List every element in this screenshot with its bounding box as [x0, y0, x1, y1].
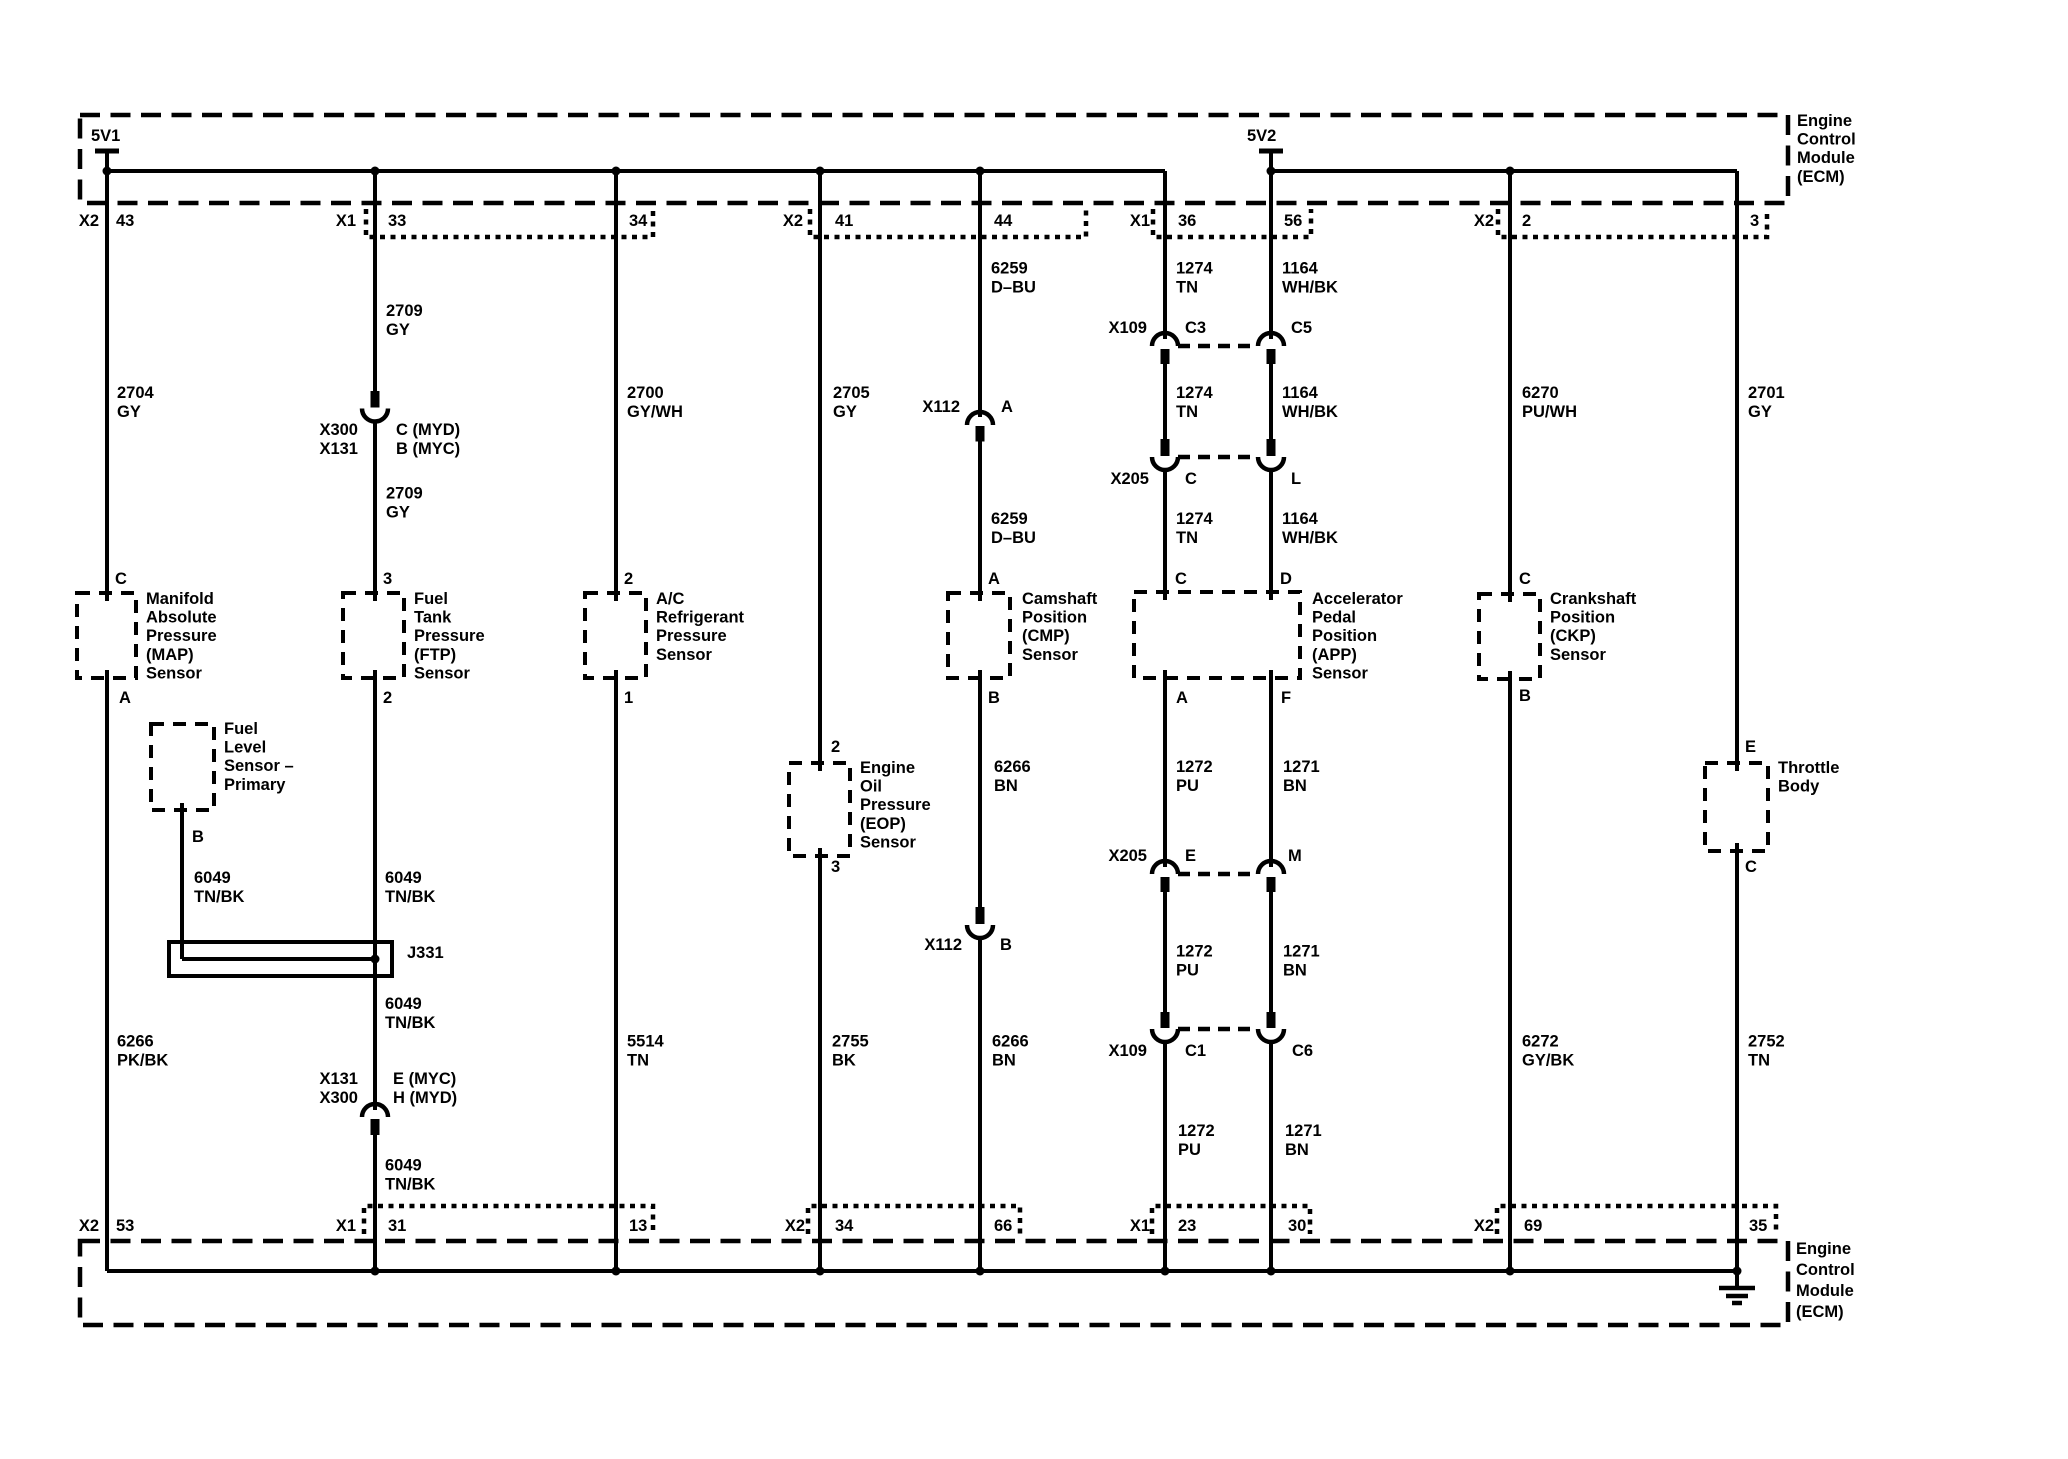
svg-text:(EOP): (EOP) [860, 815, 906, 833]
svg-text:2704: 2704 [117, 384, 155, 402]
svg-text:X109: X109 [1108, 319, 1147, 337]
svg-text:H (MYD): H (MYD) [393, 1089, 457, 1107]
svg-text:E: E [1185, 847, 1196, 865]
svg-text:C: C [1175, 570, 1187, 588]
svg-text:Refrigerant: Refrigerant [656, 609, 745, 627]
svg-text:X205: X205 [1110, 470, 1149, 488]
svg-text:6266: 6266 [992, 1033, 1029, 1051]
svg-text:X1: X1 [336, 1217, 356, 1235]
svg-text:1272: 1272 [1176, 758, 1213, 776]
svg-text:BN: BN [1283, 777, 1307, 795]
svg-text:PU: PU [1176, 962, 1199, 980]
svg-text:TN/BK: TN/BK [194, 888, 244, 906]
svg-text:Sensor: Sensor [1022, 646, 1079, 664]
svg-text:36: 36 [1178, 212, 1196, 230]
svg-text:Control: Control [1796, 1261, 1855, 1279]
svg-text:X1: X1 [1130, 1217, 1150, 1235]
svg-text:B: B [1000, 936, 1012, 954]
svg-text:GY: GY [386, 504, 410, 522]
svg-text:Level: Level [224, 739, 266, 757]
svg-text:D: D [1280, 570, 1292, 588]
svg-text:5V1: 5V1 [91, 127, 120, 145]
svg-text:Control: Control [1797, 131, 1856, 149]
svg-text:Sensor: Sensor [656, 646, 713, 664]
svg-text:F: F [1281, 689, 1291, 707]
svg-text:Accelerator: Accelerator [1312, 590, 1403, 608]
svg-text:TN/BK: TN/BK [385, 1014, 435, 1032]
svg-text:(FTP): (FTP) [414, 646, 456, 664]
svg-text:66: 66 [994, 1217, 1012, 1235]
svg-text:PU: PU [1176, 777, 1199, 795]
svg-text:43: 43 [116, 212, 134, 230]
svg-text:C3: C3 [1185, 319, 1206, 337]
svg-text:C: C [1519, 570, 1531, 588]
svg-text:Sensor: Sensor [860, 833, 917, 851]
svg-text:2700: 2700 [627, 384, 664, 402]
svg-text:41: 41 [835, 212, 853, 230]
svg-text:5514: 5514 [627, 1033, 665, 1051]
svg-text:Primary: Primary [224, 776, 286, 794]
svg-text:Manifold: Manifold [146, 590, 214, 608]
svg-text:(CMP): (CMP) [1022, 627, 1070, 645]
svg-text:Module: Module [1797, 149, 1855, 167]
svg-text:C: C [115, 570, 127, 588]
svg-text:X300: X300 [319, 1089, 358, 1107]
svg-text:X2: X2 [79, 1217, 99, 1235]
svg-text:GY: GY [386, 321, 410, 339]
svg-text:BN: BN [994, 777, 1018, 795]
svg-text:TN/BK: TN/BK [385, 888, 435, 906]
svg-text:44: 44 [994, 212, 1013, 230]
svg-text:(APP): (APP) [1312, 646, 1357, 664]
svg-text:6266: 6266 [994, 758, 1031, 776]
svg-text:2: 2 [831, 738, 840, 756]
svg-text:2709: 2709 [386, 485, 423, 503]
svg-text:X2: X2 [785, 1217, 805, 1235]
svg-text:C: C [1185, 470, 1197, 488]
svg-text:X1: X1 [1130, 212, 1150, 230]
svg-text:Engine: Engine [1797, 112, 1852, 130]
svg-text:Sensor: Sensor [1550, 646, 1607, 664]
svg-text:BN: BN [1283, 962, 1307, 980]
svg-text:BN: BN [992, 1052, 1016, 1070]
svg-text:M: M [1288, 847, 1302, 865]
svg-text:6049: 6049 [385, 1157, 422, 1175]
svg-text:GY: GY [833, 403, 857, 421]
svg-text:1271: 1271 [1285, 1122, 1322, 1140]
svg-text:2: 2 [383, 689, 392, 707]
svg-text:(CKP): (CKP) [1550, 627, 1596, 645]
svg-text:1271: 1271 [1283, 758, 1320, 776]
svg-text:(MAP): (MAP) [146, 646, 194, 664]
svg-text:C1: C1 [1185, 1042, 1206, 1060]
svg-text:56: 56 [1284, 212, 1302, 230]
svg-text:TN: TN [627, 1052, 649, 1070]
svg-text:2: 2 [1522, 212, 1531, 230]
svg-text:X109: X109 [1108, 1042, 1147, 1060]
svg-text:53: 53 [116, 1217, 134, 1235]
svg-text:A: A [1001, 398, 1013, 416]
svg-text:1164: 1164 [1282, 510, 1319, 528]
svg-text:2705: 2705 [833, 384, 870, 402]
svg-text:23: 23 [1178, 1217, 1196, 1235]
svg-text:A: A [988, 570, 1000, 588]
svg-text:(ECM): (ECM) [1797, 168, 1845, 186]
svg-text:Throttle: Throttle [1778, 759, 1839, 777]
svg-text:Fuel: Fuel [224, 720, 258, 738]
svg-text:B: B [192, 828, 204, 846]
svg-text:34: 34 [629, 212, 648, 230]
svg-text:Pressure: Pressure [146, 627, 217, 645]
svg-text:30: 30 [1288, 1217, 1306, 1235]
svg-text:3: 3 [831, 858, 840, 876]
svg-text:Position: Position [1312, 627, 1377, 645]
svg-text:1274: 1274 [1176, 510, 1214, 528]
svg-text:X2: X2 [1474, 1217, 1494, 1235]
svg-text:Pressure: Pressure [414, 627, 485, 645]
svg-text:X2: X2 [79, 212, 99, 230]
svg-text:X205: X205 [1108, 847, 1147, 865]
svg-text:5V2: 5V2 [1247, 127, 1276, 145]
svg-text:C5: C5 [1291, 319, 1312, 337]
svg-text:B: B [988, 689, 1000, 707]
svg-text:Absolute: Absolute [146, 609, 217, 627]
svg-text:GY/BK: GY/BK [1522, 1052, 1574, 1070]
svg-text:TN: TN [1176, 279, 1198, 297]
svg-text:A: A [119, 689, 131, 707]
svg-text:GY: GY [117, 403, 141, 421]
svg-text:3: 3 [1750, 212, 1759, 230]
svg-text:C: C [1745, 858, 1757, 876]
svg-text:Sensor: Sensor [146, 664, 203, 682]
svg-text:1274: 1274 [1176, 260, 1214, 278]
svg-text:B: B [1519, 687, 1531, 705]
svg-text:6049: 6049 [194, 869, 231, 887]
svg-text:Sensor: Sensor [1312, 664, 1369, 682]
svg-text:Sensor –: Sensor – [224, 757, 294, 775]
svg-text:Fuel: Fuel [414, 590, 448, 608]
svg-text:WH/BK: WH/BK [1282, 279, 1338, 297]
svg-text:1164: 1164 [1282, 384, 1319, 402]
svg-text:L: L [1291, 470, 1301, 488]
svg-text:J331: J331 [407, 944, 444, 962]
svg-text:Position: Position [1550, 609, 1615, 627]
svg-text:Pedal: Pedal [1312, 609, 1356, 627]
svg-text:3: 3 [383, 570, 392, 588]
svg-text:2752: 2752 [1748, 1033, 1785, 1051]
svg-text:A/C: A/C [656, 590, 685, 608]
svg-text:Module: Module [1796, 1282, 1854, 1300]
svg-text:C6: C6 [1292, 1042, 1313, 1060]
svg-text:TN: TN [1176, 529, 1198, 547]
svg-text:TN/BK: TN/BK [385, 1176, 435, 1194]
svg-text:1271: 1271 [1283, 943, 1320, 961]
svg-text:GY/WH: GY/WH [627, 403, 683, 421]
svg-text:E: E [1745, 738, 1756, 756]
svg-text:Camshaft: Camshaft [1022, 590, 1098, 608]
svg-text:6049: 6049 [385, 995, 422, 1013]
svg-text:D–BU: D–BU [991, 529, 1036, 547]
svg-text:A: A [1176, 689, 1188, 707]
svg-text:6259: 6259 [991, 510, 1028, 528]
svg-text:(ECM): (ECM) [1796, 1303, 1844, 1321]
svg-text:2709: 2709 [386, 302, 423, 320]
svg-text:X300: X300 [319, 421, 358, 439]
svg-text:69: 69 [1524, 1217, 1542, 1235]
svg-text:Engine: Engine [860, 759, 915, 777]
svg-text:Pressure: Pressure [656, 627, 727, 645]
svg-text:Pressure: Pressure [860, 796, 931, 814]
svg-text:6272: 6272 [1522, 1033, 1559, 1051]
svg-text:WH/BK: WH/BK [1282, 529, 1338, 547]
svg-text:34: 34 [835, 1217, 854, 1235]
svg-text:Position: Position [1022, 609, 1087, 627]
svg-text:X131: X131 [319, 440, 358, 458]
svg-text:2: 2 [624, 570, 633, 588]
svg-text:1272: 1272 [1178, 1122, 1215, 1140]
svg-text:Crankshaft: Crankshaft [1550, 590, 1637, 608]
svg-text:C (MYD): C (MYD) [396, 421, 460, 439]
svg-text:1164: 1164 [1282, 260, 1319, 278]
svg-text:33: 33 [388, 212, 406, 230]
svg-text:D–BU: D–BU [991, 279, 1036, 297]
svg-text:1274: 1274 [1176, 384, 1214, 402]
svg-text:X112: X112 [922, 398, 960, 416]
svg-text:X1: X1 [336, 212, 356, 230]
svg-text:Sensor: Sensor [414, 664, 471, 682]
svg-text:PU/WH: PU/WH [1522, 403, 1577, 421]
svg-text:X131: X131 [319, 1070, 358, 1088]
svg-text:35: 35 [1749, 1217, 1767, 1235]
svg-text:1272: 1272 [1176, 943, 1213, 961]
svg-text:1: 1 [624, 689, 633, 707]
svg-text:TN: TN [1176, 403, 1198, 421]
svg-text:X2: X2 [783, 212, 803, 230]
svg-text:TN: TN [1748, 1052, 1770, 1070]
svg-text:Body: Body [1778, 778, 1820, 796]
svg-text:31: 31 [388, 1217, 406, 1235]
svg-text:Engine: Engine [1796, 1240, 1851, 1258]
svg-text:6270: 6270 [1522, 384, 1559, 402]
svg-text:6259: 6259 [991, 260, 1028, 278]
svg-text:PU: PU [1178, 1141, 1201, 1159]
svg-text:13: 13 [629, 1217, 647, 1235]
svg-text:2755: 2755 [832, 1033, 869, 1051]
svg-text:Tank: Tank [414, 609, 452, 627]
svg-text:BK: BK [832, 1052, 856, 1070]
svg-text:WH/BK: WH/BK [1282, 403, 1338, 421]
svg-text:B (MYC): B (MYC) [396, 440, 460, 458]
svg-text:Oil: Oil [860, 778, 882, 796]
svg-text:X112: X112 [924, 936, 962, 954]
svg-text:6049: 6049 [385, 869, 422, 887]
svg-text:BN: BN [1285, 1141, 1309, 1159]
svg-text:X2: X2 [1474, 212, 1494, 230]
svg-text:E (MYC): E (MYC) [393, 1070, 456, 1088]
svg-text:6266: 6266 [117, 1033, 154, 1051]
svg-text:PK/BK: PK/BK [117, 1052, 168, 1070]
svg-text:2701: 2701 [1748, 384, 1785, 402]
svg-text:GY: GY [1748, 403, 1772, 421]
